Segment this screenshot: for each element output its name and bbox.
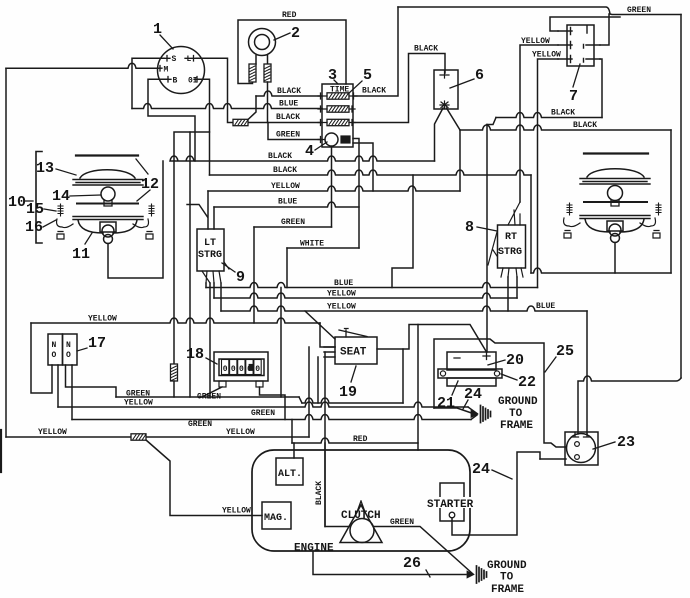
right headlight lower plate (580, 216, 650, 219)
svg-text:YELLOW: YELLOW (271, 182, 300, 191)
svg-text:GREEN: GREEN (276, 131, 300, 140)
wire LT STRG whisker B to mid BLUE (205, 283, 207, 288)
wire right border to solenoid hop (578, 376, 681, 434)
wire block bottom drop from lamp to GREEN bus (331, 147, 333, 227)
solenoid small terminals (575, 442, 580, 447)
svg-text:BLACK: BLACK (276, 113, 300, 122)
svg-text:ENGINE: ENGINE (294, 543, 334, 555)
wire hour meter right terminal drop (260, 387, 286, 420)
svg-text:FRAME: FRAME (500, 420, 533, 432)
wire 17B second lead to lower pair (71, 365, 73, 420)
svg-text:18: 18 (186, 346, 204, 363)
wire RED loop around ring (256, 56, 268, 65)
svg-text:YELLOW: YELLOW (222, 507, 251, 516)
svg-text:6: 6 (475, 67, 484, 84)
wire relay bottom right leg BLACK line (447, 108, 461, 130)
svg-text:24: 24 (464, 386, 482, 403)
svg-text:N: N (66, 341, 71, 350)
wire RED left drop (291, 420, 293, 444)
wire seat diagonal to YELLOW2 (305, 311, 335, 339)
wire RT STRG whisker drop to YELLOW1 (516, 277, 518, 298)
wire YELLOW left end drop and loop to switch 17 (31, 323, 52, 393)
svg-text:4: 4 (305, 143, 314, 160)
wire BLACK bus lower (210, 170, 532, 175)
svg-text:15: 15 (26, 201, 44, 218)
svg-text:10: 10 (8, 194, 26, 211)
ignition switch terminal ticks (158, 56, 200, 83)
wire row4 right riser to YELLOW bus (353, 143, 373, 191)
svg-text:14: 14 (52, 188, 70, 205)
wire lower pair second line (72, 415, 471, 420)
wire B-terminal loop to BLACK bus (148, 79, 195, 161)
svg-text:YELLOW: YELLOW (521, 37, 550, 46)
svg-text:21: 21 (437, 395, 455, 412)
interlock switch 17 box B (63, 334, 78, 365)
svg-text:BLACK: BLACK (414, 45, 438, 54)
right headlight top bar (584, 152, 648, 154)
wire BLACK inside engine (324, 443, 326, 527)
svg-text:5: 5 (363, 67, 372, 84)
right headlight hooks (564, 218, 580, 227)
hour meter terminals (219, 381, 226, 387)
wire WHITE left drop to mid BLUE (286, 248, 288, 288)
wire ground pair converging to frame ground (468, 407, 477, 420)
wire BLACK line to right headlight loop (460, 125, 671, 130)
svg-text:9: 9 (236, 269, 245, 286)
wire BLACK lower drop to right headlight loop (530, 175, 532, 273)
svg-text:M: M (164, 66, 169, 75)
wire LT STRG whisker D to mid YELLOW2 (220, 283, 222, 311)
wire L-terminal to fuse drop (196, 58, 233, 122)
left headlight housing bowl (item 11) (78, 220, 137, 233)
hour meter (item 18) body (214, 352, 268, 381)
svg-text:8: 8 (465, 219, 474, 236)
ground to frame symbol (engine) (477, 566, 487, 583)
left headlight mounting screws (57, 232, 64, 240)
right headlight bulb (608, 186, 623, 201)
wire item7 mid-left YELLOW lead (520, 45, 558, 202)
right headlight lens (587, 169, 644, 177)
svg-text:17: 17 (88, 335, 106, 352)
wire BLUE bus left drop to LT STRG (213, 207, 215, 229)
svg-text:BLACK: BLACK (273, 166, 297, 175)
svg-text:BLUE: BLUE (334, 279, 353, 288)
svg-text:GREEN: GREEN (251, 409, 275, 418)
wire YELLOW safety line (31, 318, 320, 323)
wire RED engine line (292, 438, 418, 443)
seat switch left stubs (324, 347, 335, 357)
wire right headlight socket drop (614, 243, 616, 274)
wire trunk from WHITE area down (280, 288, 282, 398)
right headlight socket (607, 221, 623, 231)
ground to frame symbol (battery area) (481, 406, 491, 423)
svg-text:GREEN: GREEN (197, 393, 221, 402)
wire mid YELLOW line 2 (221, 306, 587, 311)
svg-text:0: 0 (223, 365, 228, 374)
svg-text:20: 20 (506, 352, 524, 369)
right headlight middle bar (584, 201, 647, 203)
right headlight mounting screws (564, 231, 571, 239)
wire riser to row1 from fuse diagonal (248, 96, 256, 120)
wire block row1 right riser to top line (353, 7, 398, 96)
interlock switch 17 box A (48, 334, 63, 365)
svg-text:11: 11 (72, 246, 90, 263)
svg-text:L: L (187, 55, 192, 64)
wire relay leg drop to YELLOW bus (459, 130, 461, 191)
RT STRG left whiskers (488, 232, 497, 265)
svg-text:0: 0 (231, 365, 236, 374)
fuse F2 under ring (264, 64, 271, 82)
svg-text:GREEN: GREEN (188, 420, 212, 429)
solenoid top terminals (572, 432, 591, 437)
RT STRG top whiskers (508, 202, 520, 225)
left headlight middle bar (77, 203, 138, 205)
wire LT STRG whisker C to mid YELLOW1 (213, 283, 215, 298)
left headlight hooks (57, 219, 73, 228)
svg-text:YELLOW: YELLOW (226, 428, 255, 437)
wire OI drop to lower BLACK bus (209, 132, 211, 175)
svg-text:RED: RED (353, 435, 368, 444)
engine block outline (252, 450, 470, 551)
wire item7 top-left pin loop (550, 17, 620, 31)
wire whisker A to lower area (198, 396, 200, 398)
svg-text:B: B (173, 77, 178, 86)
wire BLACK lower junction drop (392, 175, 413, 288)
wire starter cable 24 (452, 452, 540, 535)
seat switch (item 19) body (335, 337, 377, 364)
wire top line from relay loop to GREEN corner (398, 7, 681, 15)
wire solenoid lower-left from starter cable (540, 458, 566, 460)
solenoid (item 23) body (565, 432, 598, 465)
RT steering switch (item 8) body (498, 225, 526, 268)
wire GREEN line lower (116, 396, 299, 398)
svg-text:GROUND: GROUND (498, 396, 538, 408)
svg-text:BLACK: BLACK (268, 152, 292, 161)
magneto MAG box (262, 502, 291, 529)
ignition switch SW1 (item 1) body (158, 47, 205, 94)
LT STRG bottom whiskers (202, 262, 229, 283)
connector block (item 3) outline (322, 84, 353, 147)
RT STRG bottom whiskers (501, 268, 523, 277)
svg-text:FRAME: FRAME (491, 584, 524, 596)
svg-text:GROUND: GROUND (487, 560, 527, 572)
wire mid BLUE line (206, 283, 538, 288)
block row3 fuse (327, 119, 349, 125)
svg-text:23: 23 (617, 434, 635, 451)
wire seat drop to bottom yellow (308, 347, 310, 437)
svg-text:TO: TO (500, 572, 514, 584)
left headlight springs (item 15) (58, 204, 63, 216)
wire right border down (680, 15, 682, 379)
svg-text:25: 25 (556, 343, 574, 360)
svg-text:BLACK: BLACK (277, 87, 301, 96)
wire BLUE bus (214, 202, 359, 207)
wire item7 bottom-left YELLOW lead (538, 59, 559, 288)
left headlight socket (100, 222, 116, 232)
wire item7 bottom-right pin drop (600, 59, 602, 118)
svg-text:7: 7 (569, 88, 578, 105)
svg-text:SEAT: SEAT (340, 347, 367, 359)
svg-text:S: S (172, 55, 177, 64)
svg-text:STARTER: STARTER (427, 499, 474, 511)
battery lower cell (item 21) (447, 378, 496, 386)
connector (item 7) body (567, 25, 594, 66)
left headlight lower plate (73, 217, 143, 220)
svg-text:BLUE: BLUE (279, 100, 298, 109)
svg-text:YELLOW: YELLOW (327, 303, 356, 312)
wire engine bottom to ground (313, 551, 466, 575)
svg-text:RT: RT (505, 232, 517, 243)
wire YELLOW bus left drop to LT STRG (207, 191, 209, 229)
battery enclosure wire (486, 351, 488, 353)
right headlight springs (567, 203, 572, 215)
clutch symbol (350, 519, 374, 543)
svg-text:BLACK: BLACK (362, 87, 386, 96)
svg-text:YELLOW: YELLOW (38, 428, 67, 437)
wire M-terminal to left border (6, 63, 158, 68)
svg-text:24: 24 (472, 461, 490, 478)
wire block row1 left BLACK bus (256, 91, 322, 96)
wire mid YELLOW2 drop to solenoid (586, 311, 588, 434)
wire seat right riser to battery diagonal (403, 325, 487, 353)
svg-text:GREEN: GREEN (390, 518, 414, 527)
wire block row4 left GREEN bus (268, 123, 322, 140)
svg-text:2: 2 (291, 25, 300, 42)
wire block row4 right drop (353, 139, 359, 249)
left headlight top bar (item 12 retainer) (76, 154, 138, 156)
svg-text:BLACK: BLACK (573, 121, 597, 130)
svg-text:19: 19 (339, 384, 357, 401)
block row2 fuse (327, 106, 349, 112)
wire block row3 right riser to relay top (353, 54, 445, 123)
wire seat lower loop (318, 349, 403, 403)
wire GREEN bus (254, 226, 332, 228)
svg-text:LT: LT (204, 238, 216, 249)
wire GREEN from clutch (374, 527, 473, 575)
svg-text:0I: 0I (188, 77, 198, 86)
svg-text:GREEN: GREEN (126, 390, 150, 399)
wire RT STRG whisker drop to YELLOW2 (507, 277, 509, 311)
fuse F1 under ring (249, 64, 256, 82)
right headlight housing bowl (585, 219, 644, 232)
wire GREEN bus left drop trunk (253, 227, 255, 323)
svg-text:GREEN: GREEN (627, 6, 651, 15)
left headlight bracket (item 10) (36, 152, 42, 244)
svg-text:0: 0 (255, 365, 260, 374)
svg-text:GREEN: GREEN (281, 218, 305, 227)
wire 17B first lead to GREEN line (66, 365, 117, 397)
scan edge artifact (0, 430, 2, 472)
left headlight bulb (item 14) (101, 187, 115, 201)
svg-text:N: N (52, 341, 57, 350)
wire seat trunk down to engine BLACK (324, 352, 326, 525)
wire 17A second lead to YELLOW lower (57, 365, 59, 407)
wire BLACK line item7 to battery trunk (496, 113, 602, 118)
svg-text:ALT.: ALT. (278, 469, 302, 480)
svg-text:O: O (66, 351, 71, 360)
wire S-terminal leader and drop to BLUE bus (132, 58, 164, 108)
wire WHITE line (287, 247, 359, 249)
wire ALT to RED line (293, 443, 295, 458)
svg-text:STRG: STRG (498, 247, 522, 258)
svg-text:0: 0 (239, 365, 244, 374)
wire YELLOW bus (208, 186, 460, 191)
left headlight lens (item 13) (80, 170, 135, 178)
svg-text:WHITE: WHITE (300, 240, 324, 249)
svg-text:RED: RED (282, 11, 297, 20)
seat switch lever (339, 329, 367, 338)
svg-text:CLUTCH: CLUTCH (341, 510, 381, 522)
svg-text:BLACK: BLACK (551, 109, 575, 118)
svg-text:YELLOW: YELLOW (88, 315, 117, 324)
wire YELLOW line lower to ground pair upper (58, 402, 468, 407)
connector 7 pins (558, 26, 600, 63)
wire YELLOW line drop to seat (320, 323, 335, 347)
wire RED right drop from seat line (417, 325, 419, 451)
wire item7 mid-right pin riser (600, 14, 609, 45)
wire right headlight loop bottom (531, 268, 671, 273)
alternator ALT box (276, 458, 303, 485)
wire BLACK bus upper (170, 156, 435, 161)
svg-text:BLACK: BLACK (315, 481, 324, 505)
wire left border vertical (5, 68, 7, 437)
relay (item 6) body (434, 70, 458, 109)
svg-text:MAG.: MAG. (264, 513, 288, 524)
battery bar with bolts (item 22) (438, 369, 502, 378)
svg-text:22: 22 (518, 374, 536, 391)
svg-text:13: 13 (36, 160, 54, 177)
starter body (440, 483, 464, 521)
svg-text:BLUE: BLUE (536, 302, 555, 311)
wire battery positive trunk (486, 125, 488, 353)
wire mid YELLOW line 1 (214, 293, 517, 298)
wire right headlight loop riser (670, 130, 672, 273)
ring terminal (item 2) (249, 29, 276, 56)
svg-text:26: 26 (403, 555, 421, 572)
svg-text:YELLOW: YELLOW (124, 399, 153, 408)
wire LT STRG whisker A drop (209, 283, 211, 397)
svg-text:BLUE: BLUE (278, 198, 297, 207)
svg-text:YELLOW: YELLOW (532, 51, 561, 60)
wire relay bottom left leg to BLACK bus (435, 108, 444, 161)
wire seat loop bottom (302, 398, 403, 403)
wire OI-terminal loop (174, 79, 210, 161)
wire fuse F2 drop to row3 (267, 82, 269, 123)
hour meter digits (222, 360, 229, 375)
battery top cell (item 20) (447, 352, 496, 370)
svg-text:STRG: STRG (198, 250, 222, 261)
svg-text:O: O (52, 351, 57, 360)
fuse F4 vertical on trunk x174 (171, 364, 178, 381)
wire hour meter left terminal diagonal (202, 387, 222, 397)
wire bottom YELLOW line (6, 436, 309, 438)
block row4 lamp (item 4) (325, 133, 338, 146)
LT steering switch (item 9) body (197, 229, 224, 271)
svg-text:16: 16 (25, 219, 43, 236)
wire MAG lead diagonal and run (146, 440, 262, 516)
svg-text:YELLOW: YELLOW (327, 290, 356, 299)
fuse F5 on bottom yellow (131, 434, 146, 440)
wire trunk x174 with fuse (173, 161, 175, 364)
wire BLACK to clutch (325, 526, 350, 528)
svg-text:TO: TO (509, 408, 523, 420)
wire block row2 left BLUE bus (132, 104, 322, 109)
wire left headlight socket loop (108, 161, 163, 278)
